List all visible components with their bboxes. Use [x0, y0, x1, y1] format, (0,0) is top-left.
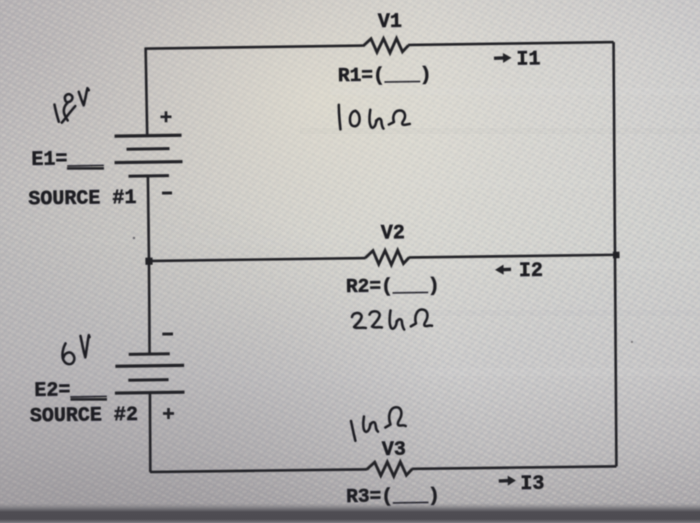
- arrow I2 (current direction left): [495, 264, 511, 274]
- svg-text:I3: I3: [520, 473, 544, 496]
- svg-text:R3=(___): R3=(___): [346, 485, 440, 508]
- wire: bottom left segment: [150, 469, 367, 472]
- polarity + of E1: [160, 111, 171, 122]
- speck right area: [631, 341, 633, 343]
- wire: middle node to E2 top: [148, 261, 150, 354]
- resistor R1: [363, 38, 409, 53]
- handwritten value 10 kOhm for R1: [339, 105, 341, 130]
- svg-text:V2: V2: [381, 222, 405, 245]
- wire: middle branch left segment: [149, 258, 365, 261]
- handwritten value 6V for E2: [62, 343, 74, 364]
- battery E1 (source #1): [114, 135, 183, 176]
- svg-text:SOURCE #2: SOURCE #2: [30, 404, 138, 429]
- polarity + of E2: [163, 408, 174, 419]
- arrow I3 (current direction right): [499, 476, 516, 486]
- battery E2 (source #2): [114, 354, 184, 394]
- svg-text:I2: I2: [519, 260, 543, 283]
- polarity - of E1: [162, 191, 172, 194]
- wire: middle branch right segment: [409, 255, 617, 258]
- resistor R3: [367, 462, 413, 477]
- svg-text:R2=(___): R2=(___): [346, 275, 440, 298]
- junction node right (middle-right): [613, 252, 620, 259]
- junction node left (middle-left): [145, 258, 152, 265]
- wire: E1 bottom to middle node: [148, 176, 149, 261]
- svg-text:V1: V1: [378, 11, 402, 34]
- polarity - of E2: [162, 332, 173, 335]
- svg-text:V3: V3: [382, 439, 406, 462]
- handwritten value 1 kOhm for R3: [351, 421, 355, 441]
- arrow I1 (current direction right): [494, 53, 512, 63]
- handwritten value 18V for E1: [54, 105, 58, 122]
- wire: top left segment: [145, 46, 363, 49]
- speck near middle-left node: [133, 237, 135, 239]
- svg-text:R1=(___): R1=(___): [338, 64, 432, 87]
- resistor R2: [365, 250, 409, 265]
- wire: E2 bottom stub: [149, 393, 151, 473]
- handwritten value 22 kOhm for R2: [352, 313, 366, 328]
- wire: top right segment: [408, 42, 613, 45]
- svg-text:SOURCE #1: SOURCE #1: [28, 187, 136, 212]
- wire: bottom right segment: [412, 466, 616, 469]
- svg-text:I1: I1: [516, 48, 540, 71]
- wire: E1 top stub: [146, 48, 148, 136]
- wire: right side (node B to node D): [610, 42, 619, 466]
